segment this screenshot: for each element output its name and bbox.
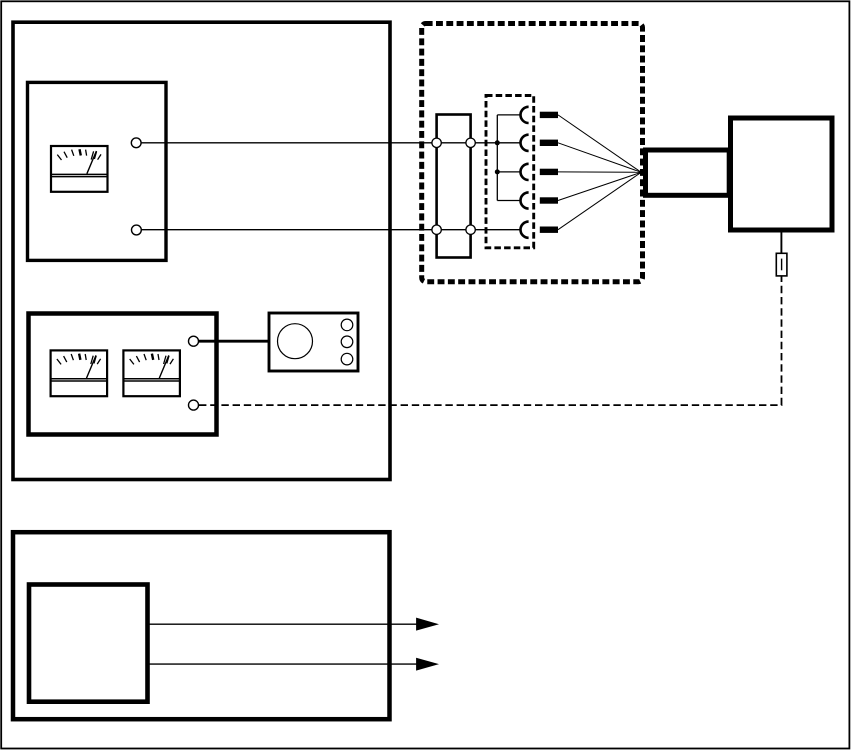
junction dot J2 (495, 169, 500, 174)
connector body (437, 115, 471, 258)
pin 2 (540, 140, 558, 146)
indicator lamp L2 (341, 336, 353, 348)
connector terminal circle A2 (466, 138, 475, 147)
harness dashed enclosure (422, 24, 643, 282)
socket block dashed outline (486, 96, 534, 248)
distribution bus vertical wire (496, 115, 498, 201)
pin 1 (540, 112, 558, 118)
terminal T1 (131, 138, 141, 148)
pin 3 (540, 169, 558, 175)
terminal T3 (189, 336, 199, 346)
connector terminal circle B2 (466, 225, 475, 234)
bus stub wire to contact 3 (497, 171, 520, 173)
output wire 1 (148, 623, 418, 625)
control panel enclosure box (13, 22, 390, 479)
meter sub-panel box (28, 82, 167, 260)
pin 5 (540, 227, 558, 233)
meter M1 (51, 146, 109, 192)
terminal T4 (189, 400, 199, 410)
junction dot J1 (495, 140, 500, 145)
lower enclosure box (13, 532, 390, 719)
lower meter sub-panel box (29, 314, 217, 435)
dial circle (278, 324, 313, 359)
thick wire from terminal T3 to device box (199, 340, 270, 343)
pin 4 (540, 197, 558, 203)
output wire 2 (148, 663, 418, 665)
fuse element line (781, 259, 783, 271)
arrowhead 1 (416, 618, 439, 631)
fuse F1 (776, 253, 787, 276)
wire from actuator to fuse (780, 233, 782, 254)
actuator unit box (731, 118, 833, 230)
socket contact 2 (521, 135, 529, 151)
connector terminal circle A1 (432, 138, 441, 147)
socket contact 4 (521, 192, 529, 208)
lead wire from pin 5 (558, 172, 641, 229)
indicator lamp L3 (341, 353, 353, 365)
connector terminal circle B1 (432, 225, 441, 234)
lead wire from pin 1 (558, 115, 641, 172)
bus stub wire to contact 1 (497, 114, 520, 116)
meter M3 (123, 350, 180, 396)
meter M2 (50, 350, 108, 396)
plug housing (646, 150, 730, 195)
socket contact 1 (521, 107, 529, 123)
control unit box (29, 585, 148, 702)
device box with dial (269, 313, 358, 371)
lead wire from pin 4 (558, 172, 641, 200)
wire from meter panel terminal T1 to socket contact 2 (136, 142, 520, 144)
arrowhead 2 (416, 658, 439, 671)
dashed sensing wire from terminal T4 to fuse (199, 277, 782, 406)
socket contact 3 (521, 164, 529, 180)
terminal T2 (132, 225, 142, 235)
socket contact 5 (521, 222, 529, 238)
lead wire from pin 2 (558, 143, 641, 173)
indicator lamp L1 (341, 319, 353, 331)
lead wire from pin 3 (558, 171, 641, 173)
bus stub wire to contact 4 (497, 200, 520, 202)
wire from meter panel terminal T2 to socket contact 5 (136, 229, 520, 231)
